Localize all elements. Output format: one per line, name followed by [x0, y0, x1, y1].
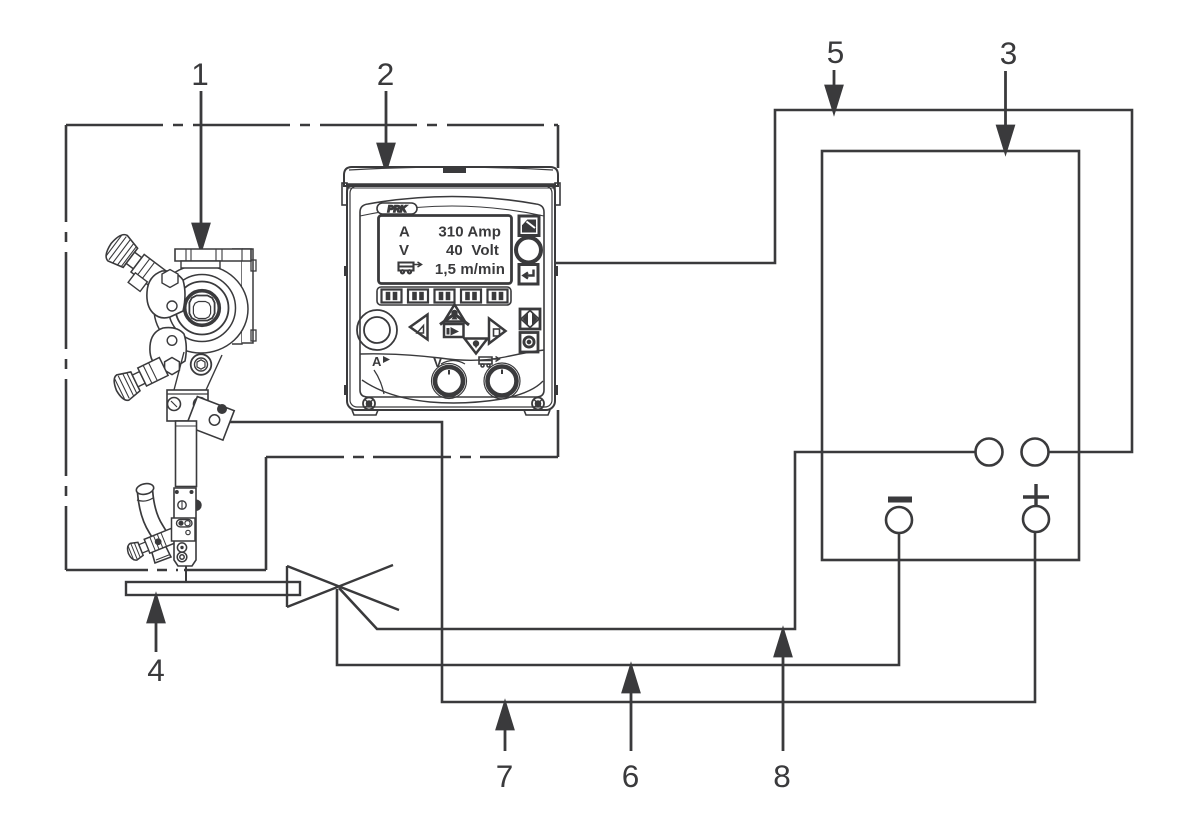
svg-text:310 Amp: 310 Amp	[438, 224, 501, 241]
svg-text:5: 5	[827, 34, 845, 70]
svg-text:1,5 m/min: 1,5 m/min	[435, 261, 505, 278]
svg-text:6: 6	[622, 758, 640, 794]
svg-text:V: V	[399, 242, 409, 259]
svg-text:2: 2	[377, 56, 395, 92]
svg-text:40 Volt: 40 Volt	[446, 242, 499, 259]
svg-text:7: 7	[496, 758, 514, 794]
svg-text:A: A	[399, 224, 410, 241]
svg-text:1: 1	[191, 56, 209, 92]
svg-text:4: 4	[147, 652, 165, 688]
svg-text:3: 3	[1000, 35, 1018, 71]
svg-text:8: 8	[773, 758, 791, 794]
svg-text:PRK: PRK	[387, 204, 408, 214]
svg-text:A: A	[372, 354, 382, 369]
